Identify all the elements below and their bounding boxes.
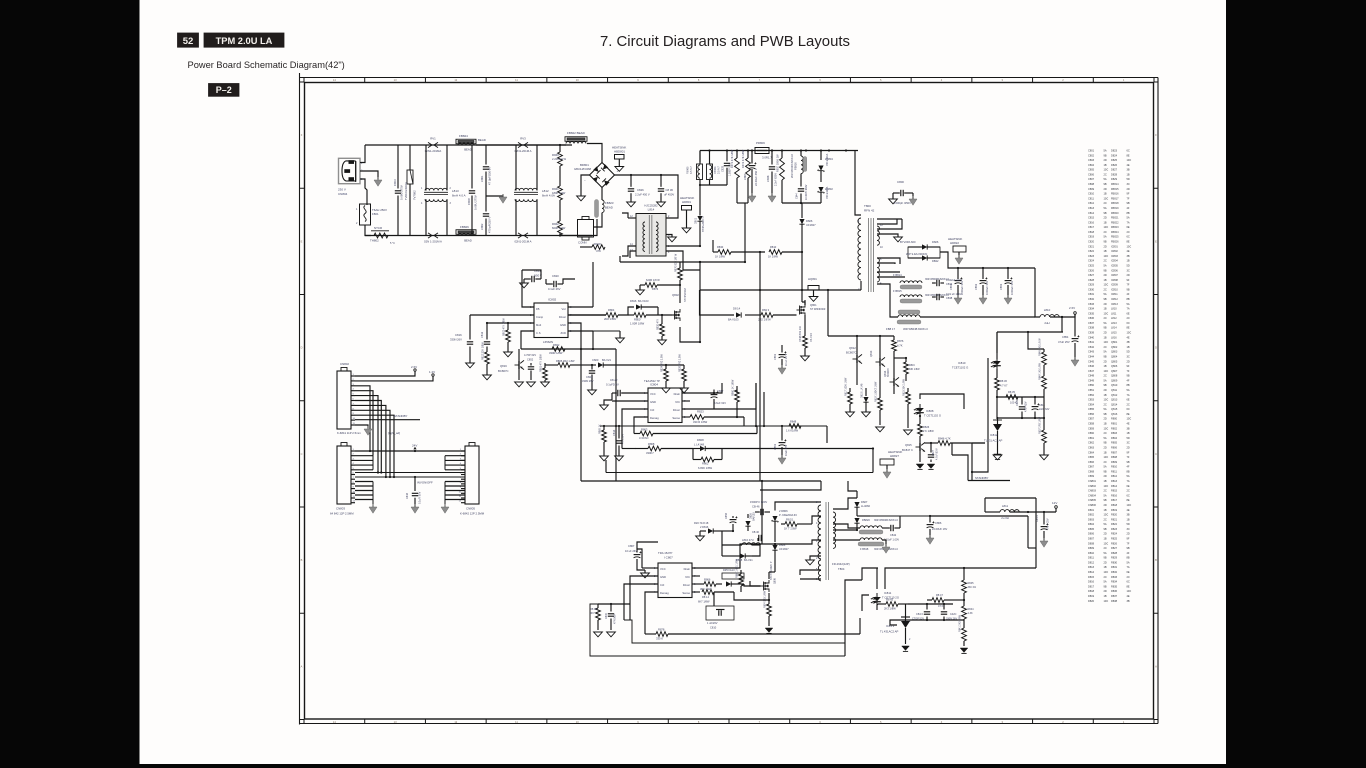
svg-text:8E: 8E xyxy=(1127,584,1130,588)
svg-text:1K 1/8W: 1K 1/8W xyxy=(768,255,778,259)
svg-text:FB821: FB821 xyxy=(1111,216,1119,220)
svg-text:R830: R830 xyxy=(1111,560,1118,564)
svg-text:C836: C836 xyxy=(1088,316,1095,320)
svg-text:6E: 6E xyxy=(1127,398,1130,402)
wire bridge plus output xyxy=(615,175,679,218)
transistor Q816 xyxy=(515,360,525,369)
svg-text:9B: 9B xyxy=(1104,556,1107,560)
svg-text:2C: 2C xyxy=(1104,575,1107,579)
svg-text:HD822: HD822 xyxy=(950,241,959,245)
svg-text:UF1827: UF1827 xyxy=(779,547,789,551)
svg-text:L816 47U: L816 47U xyxy=(742,538,754,542)
svg-text:9F: 9F xyxy=(1127,536,1130,540)
svg-text:6C: 6C xyxy=(1127,235,1130,239)
wire Vcc pin xyxy=(568,306,593,308)
svg-text:uF 450V: uF 450V xyxy=(664,193,674,197)
svg-text:6C: 6C xyxy=(1127,580,1130,584)
svg-text:C825: C825 xyxy=(1088,263,1095,267)
svg-text:R848: R848 xyxy=(790,420,797,424)
capacitor C836 bulk xyxy=(660,175,662,187)
svg-text:Demag: Demag xyxy=(660,591,669,595)
svg-text:C828: C828 xyxy=(722,165,725,172)
wire hv to transformer xyxy=(855,151,861,216)
svg-text:2D: 2D xyxy=(1104,589,1107,593)
ground sec center tap xyxy=(894,237,903,242)
resistor R802 xyxy=(507,323,509,330)
svg-text:8E: 8E xyxy=(1127,326,1130,330)
svg-text:2D: 2D xyxy=(1104,417,1107,421)
wire ic804 nc stub xyxy=(682,400,690,402)
capacitor C842 out xyxy=(882,527,890,529)
svg-text:R826: R826 xyxy=(923,425,930,429)
svg-text:D825: D825 xyxy=(1111,158,1118,162)
capacitor C844 xyxy=(798,188,804,190)
svg-text:C834: C834 xyxy=(946,282,953,286)
capacitor C834 xyxy=(932,282,936,284)
wire ic807 drain xyxy=(692,544,775,568)
svg-text:C831: C831 xyxy=(1088,292,1095,296)
svg-text:10C: 10C xyxy=(1104,541,1109,545)
svg-text:2C: 2C xyxy=(1104,489,1107,493)
svg-text:10C: 10C xyxy=(1127,503,1132,507)
svg-text:3B: 3B xyxy=(1127,254,1130,258)
svg-text:CN802: CN802 xyxy=(1088,484,1097,488)
svg-text:7F: 7F xyxy=(1127,196,1130,200)
svg-text:2 6V: 2 6V xyxy=(411,365,417,369)
pfc choke L814 xyxy=(636,214,666,257)
svg-text:ST W9NK90Z: ST W9NK90Z xyxy=(810,308,826,311)
resistor R962 bleeder xyxy=(559,200,561,221)
ic IC804 TEA1532 xyxy=(648,388,682,423)
wire cn805 pins 8-12 bar xyxy=(445,481,465,483)
svg-text:2D: 2D xyxy=(1104,474,1107,478)
svg-text:3C: 3C xyxy=(1127,527,1130,531)
svg-text:R821: R821 xyxy=(1111,517,1118,521)
svg-text:P4KE120A: P4KE120A xyxy=(826,186,829,199)
svg-text:R815 33K 1/8W: R815 33K 1/8W xyxy=(903,378,906,396)
inductor FB964 sense xyxy=(709,151,711,165)
junction bottom bus x556 xyxy=(559,234,561,236)
svg-text:R836: R836 xyxy=(1111,589,1118,593)
svg-text:4.6uF 62V: 4.6uF 62V xyxy=(714,401,726,405)
wire AC top bus xyxy=(365,144,566,146)
svg-text:4E: 4E xyxy=(1127,594,1130,598)
svg-text:0.022uF 100V: 0.022uF 100V xyxy=(946,278,963,282)
svg-text:L814: L814 xyxy=(648,208,655,212)
svg-text:D806: D806 xyxy=(1088,532,1095,536)
svg-text:47u F 25V: 47u F 25V xyxy=(1047,518,1050,530)
wire cn802 standby pin xyxy=(355,419,420,421)
svg-text:2C: 2C xyxy=(1127,489,1130,493)
svg-text:1.6 K1/8W: 1.6 K1/8W xyxy=(786,429,799,433)
svg-text:HQ801: HQ801 xyxy=(808,277,817,281)
svg-text:5A: 5A xyxy=(1104,149,1107,153)
svg-text:Q812: Q812 xyxy=(849,346,856,350)
diode D814 xyxy=(700,290,735,315)
svg-text:Q811: Q811 xyxy=(1111,388,1118,392)
svg-text:D819: D819 xyxy=(1088,594,1095,598)
svg-text:F B818: F B818 xyxy=(860,547,869,551)
svg-text:D808: D808 xyxy=(1088,541,1095,545)
svg-text:C814: C814 xyxy=(612,429,616,436)
svg-text:4F: 4F xyxy=(1127,465,1130,469)
svg-text:7F: 7F xyxy=(1127,369,1130,373)
capacitor C861 Y xyxy=(485,145,487,165)
svg-text:10C: 10C xyxy=(1104,398,1109,402)
svg-text:C847: C847 xyxy=(1088,369,1095,373)
common-mode choke L813 xyxy=(425,188,447,190)
svg-text:2D: 2D xyxy=(1104,187,1107,191)
svg-text:IC811: IC811 xyxy=(1111,292,1118,296)
svg-text:1B: 1B xyxy=(1104,536,1107,540)
svg-text:C838: C838 xyxy=(946,296,953,300)
wire T800 low sec taps xyxy=(877,258,900,264)
svg-text:C851: C851 xyxy=(1088,388,1095,392)
connector CN803 xyxy=(337,446,351,504)
svg-text:5A: 5A xyxy=(1104,206,1107,210)
svg-text:33K 1/8W: 33K 1/8W xyxy=(909,368,920,371)
svg-text:L811: L811 xyxy=(1002,504,1008,508)
svg-text:Sense: Sense xyxy=(672,416,680,420)
resistor R961 bleeder xyxy=(559,166,561,186)
svg-text:T CET1102 G: T CET1102 G xyxy=(924,414,941,418)
varistor RV2 xyxy=(428,233,438,238)
svg-text:R820 47K: R820 47K xyxy=(657,319,660,330)
svg-text:4E: 4E xyxy=(1127,335,1130,339)
svg-text:C84 0: C84 0 xyxy=(916,612,923,616)
svg-text:CONN: CONN xyxy=(578,241,587,245)
svg-text:R807: R807 xyxy=(1111,450,1118,454)
svg-text:B: B xyxy=(301,558,303,562)
svg-text:9B: 9B xyxy=(1127,546,1130,550)
svg-text:C864: C864 xyxy=(1088,450,1095,454)
resistor R836 opto xyxy=(996,369,998,378)
svg-text:2u 3H: 2u 3H xyxy=(1001,516,1008,520)
svg-text:10C: 10C xyxy=(1104,484,1109,488)
svg-text:R837 2R0 1/8W: R837 2R0 1/8W xyxy=(1039,416,1042,434)
svg-text:D820: D820 xyxy=(1088,599,1095,603)
diode D826 damper xyxy=(801,203,803,218)
wire q801 drain up xyxy=(802,302,805,305)
diode pair D805 gate xyxy=(716,583,722,585)
svg-text:FB816: FB816 xyxy=(794,162,798,170)
svg-text:NTCR: NTCR xyxy=(374,226,382,230)
svg-text:Q816: Q816 xyxy=(500,364,507,368)
wire HV bus drop left xyxy=(699,151,701,163)
wire q806 gate xyxy=(750,581,761,586)
svg-text:IC811: IC811 xyxy=(884,591,892,595)
svg-text:2C: 2C xyxy=(1104,374,1107,378)
svg-text:R849 1K5 1/8W: R849 1K5 1/8W xyxy=(1039,362,1042,380)
svg-text:STANDBY: STANDBY xyxy=(394,414,408,418)
svg-text:3B: 3B xyxy=(1127,513,1130,517)
resistor R865b xyxy=(558,363,570,368)
svg-text:IC808: IC808 xyxy=(926,409,934,413)
svg-text:4F: 4F xyxy=(1127,292,1130,296)
svg-text:L814: L814 xyxy=(1111,326,1117,330)
svg-text:R84 3: R84 3 xyxy=(762,308,770,312)
svg-text:C814: C814 xyxy=(1088,211,1095,215)
svg-text:6C: 6C xyxy=(1127,321,1130,325)
svg-text:9B: 9B xyxy=(1104,469,1107,473)
svg-text:C826: C826 xyxy=(637,188,644,192)
svg-text:C866: C866 xyxy=(1088,460,1095,464)
wire ic804 ctrl pin xyxy=(622,409,648,426)
capacitor C846b HV xyxy=(757,538,759,541)
svg-text:9B: 9B xyxy=(1104,268,1107,272)
svg-text:2D: 2D xyxy=(1127,445,1130,449)
svg-text:FB820: FB820 xyxy=(862,518,870,522)
svg-text:C850: C850 xyxy=(1088,383,1095,387)
svg-text:9B: 9B xyxy=(1104,527,1107,531)
svg-text:1B: 1B xyxy=(1127,172,1130,176)
electrolytic C866 xyxy=(929,516,931,523)
resistor R819 cluster xyxy=(879,394,881,398)
ferrite bead FB824 xyxy=(456,139,476,144)
connector CN802 xyxy=(337,371,351,429)
svg-text:2C: 2C xyxy=(1104,201,1107,205)
svg-text:2D: 2D xyxy=(1104,388,1107,392)
svg-text:2K3 1/8W: 2K3 1/8W xyxy=(884,607,896,611)
svg-text:Ctrl: Ctrl xyxy=(660,583,665,587)
sheet label P-2 xyxy=(209,84,240,97)
svg-text:R845: R845 xyxy=(968,582,975,585)
wire ic807 demag xyxy=(645,592,658,634)
svg-text:5A: 5A xyxy=(1104,436,1107,440)
svg-text:2D: 2D xyxy=(1104,302,1107,306)
svg-text:R817: R817 xyxy=(1111,498,1118,502)
inductor L816 xyxy=(742,543,760,545)
capacitor C846c fb xyxy=(1034,397,1036,405)
svg-text:IC812: IC812 xyxy=(1111,297,1118,301)
svg-text:D816: D816 xyxy=(1088,580,1095,584)
svg-text:D816: D816 xyxy=(630,299,637,303)
svg-text:4E: 4E xyxy=(1127,422,1130,426)
svg-text:36R W5R4B 820X1.0: 36R W5R4B 820X1.0 xyxy=(903,327,928,331)
svg-text:0.01 uF 100V: 0.01 uF 100V xyxy=(946,292,962,296)
wire cs sense xyxy=(672,314,680,316)
capacitor C810 sense xyxy=(713,592,715,606)
svg-text:FB: FB xyxy=(536,307,540,311)
svg-text:C830: C830 xyxy=(1088,287,1095,291)
ferrite bead FB826 xyxy=(456,230,476,235)
resistor R841 divider xyxy=(963,620,965,628)
svg-text:FR-2642(12P): FR-2642(12P) xyxy=(832,562,850,566)
svg-text:0K7: 0K7 xyxy=(590,611,595,615)
svg-text:5A: 5A xyxy=(1127,560,1130,564)
resistor R820 gate pulldown xyxy=(661,314,663,316)
svg-text:0.1uF/ 50V: 0.1uF/ 50V xyxy=(419,491,422,504)
svg-text:T800: T800 xyxy=(864,204,871,208)
svg-text:1B: 1B xyxy=(1104,278,1107,282)
svg-text:2uH: 2uH xyxy=(1044,321,1049,325)
svg-text:CN805: CN805 xyxy=(466,507,475,511)
svg-text:Q807: Q807 xyxy=(1111,369,1118,373)
svg-text:R870 820 1/8 W: R870 820 1/8 W xyxy=(675,253,678,272)
svg-text:5A: 5A xyxy=(1127,216,1130,220)
svg-text:VCC: VCC xyxy=(650,392,656,396)
svg-text:ZCD: ZCD xyxy=(560,331,566,335)
svg-text:R829: R829 xyxy=(1111,556,1118,560)
svg-text:E: E xyxy=(1155,239,1157,243)
resistor R837 xyxy=(781,151,783,159)
capacitor C862 Y xyxy=(485,196,487,212)
svg-text:L813: L813 xyxy=(1111,321,1117,325)
electrolytic C854 xyxy=(1074,315,1076,337)
svg-text:0.68U 275V: 0.68U 275V xyxy=(474,195,478,210)
varistor RV802 xyxy=(409,145,411,170)
diode D824 clamp xyxy=(772,545,777,550)
svg-text:1B: 1B xyxy=(1104,163,1107,167)
wire fuse to NTC xyxy=(365,225,371,236)
svg-text:3K0 1/3W: 3K0 1/3W xyxy=(700,587,712,591)
ferrite bead FB822 xyxy=(565,137,587,142)
svg-text:8E: 8E xyxy=(1127,240,1130,244)
svg-text:2.2uF 450 V: 2.2uF 450 V xyxy=(635,193,650,197)
resistor R832 xyxy=(552,347,565,352)
transistor Q815 xyxy=(916,442,926,451)
svg-text:PR806: PR806 xyxy=(756,141,765,145)
svg-text:4.7 K7: 4.7 K7 xyxy=(1000,384,1008,388)
fuse PR806 xyxy=(755,148,769,154)
wire inlet pin3 down xyxy=(360,179,367,205)
svg-text:C867: C867 xyxy=(628,544,635,548)
resistor R830 xyxy=(713,251,718,253)
svg-text:9B: 9B xyxy=(1104,584,1107,588)
svg-text:A: A xyxy=(1155,664,1157,668)
zener ZD806 xyxy=(772,516,779,522)
svg-text:C817: C817 xyxy=(1088,225,1095,229)
common-mode choke L812 xyxy=(515,188,537,190)
svg-text:4E: 4E xyxy=(1127,508,1130,512)
wire standby out xyxy=(930,515,1028,517)
svg-text:2R2 1/8W: 2R2 1/8W xyxy=(604,317,616,321)
svg-text:IC805: IC805 xyxy=(1111,263,1118,267)
capacitor C849 fb xyxy=(1021,397,1023,405)
svg-text:9B: 9B xyxy=(1127,460,1130,464)
svg-text:C810: C810 xyxy=(710,626,717,630)
svg-text:IC807: IC807 xyxy=(1111,273,1118,277)
svg-text:GBU4J/F3468: GBU4J/F3468 xyxy=(574,167,592,171)
resistor R847 reg xyxy=(932,598,944,603)
wire t801 pin1 xyxy=(775,540,821,544)
resistor R800 gate xyxy=(634,313,646,318)
svg-text:R824 6R2 1.8W: R824 6R2 1.8W xyxy=(661,354,664,372)
varistor RV1 xyxy=(428,142,438,147)
svg-text:R860 1K 1/8W: R860 1K 1/8W xyxy=(732,379,735,396)
wire ic807 ctrl xyxy=(624,584,658,620)
svg-text:R8 35: R8 35 xyxy=(1008,390,1015,394)
svg-text:R824: R824 xyxy=(1111,532,1118,536)
svg-text:3C: 3C xyxy=(1127,182,1130,186)
ic IC802 PFC controller L6562 xyxy=(534,303,568,338)
svg-text:FB815: FB815 xyxy=(1111,187,1119,191)
svg-text:FB820: FB820 xyxy=(1111,211,1119,215)
svg-text:C863: C863 xyxy=(1088,445,1095,449)
svg-text:C815: C815 xyxy=(1088,216,1095,220)
wire opto frame xyxy=(845,580,862,611)
svg-text:L L4148: L L4148 xyxy=(694,443,704,447)
resistor R846b xyxy=(938,441,950,446)
svg-text:TPM 2.0U LA: TPM 2.0U LA xyxy=(216,36,273,46)
resistor R873 xyxy=(645,283,657,288)
svg-text:C820: C820 xyxy=(1088,240,1095,244)
resistor R865 vert xyxy=(603,426,605,430)
svg-text:BAV103: BAV103 xyxy=(753,512,756,521)
resistor R812 xyxy=(485,352,490,364)
svg-text:R873: R873 xyxy=(652,287,659,291)
svg-text:F B814: F B814 xyxy=(893,273,902,277)
diode D818 rect xyxy=(700,530,706,532)
svg-text:C822: C822 xyxy=(1088,249,1095,253)
resistor R824 zcd xyxy=(665,365,667,369)
svg-text:3C: 3C xyxy=(1127,268,1130,272)
svg-text:R812 33K 1/8W: R812 33K 1/8W xyxy=(482,342,485,360)
svg-text:R820: R820 xyxy=(1111,513,1118,517)
svg-text:R832: R832 xyxy=(553,343,560,347)
svg-text:5D: 5D xyxy=(1127,350,1130,354)
svg-text:1B: 1B xyxy=(1104,192,1107,196)
svg-text:1B: 1B xyxy=(1127,517,1130,521)
svg-text:BC807C: BC807C xyxy=(846,351,857,355)
electrolytic C852 xyxy=(982,268,984,279)
svg-text:C839: C839 xyxy=(1088,331,1095,335)
svg-text:BA V103: BA V103 xyxy=(638,299,649,303)
wire ic807 gnd xyxy=(630,576,658,604)
diode D819 parallel xyxy=(740,553,745,558)
capacitor C826 bulk xyxy=(630,175,632,187)
svg-text:CB 46: CB 46 xyxy=(752,531,760,534)
resistor R817 cluster xyxy=(849,388,851,392)
svg-text:C842: C842 xyxy=(890,533,897,537)
svg-text:P4KE120A: P4KE120A xyxy=(826,153,829,166)
svg-text:7A: 7A xyxy=(1127,220,1130,224)
svg-text:5D: 5D xyxy=(1127,177,1130,181)
svg-text:L812: L812 xyxy=(542,189,549,193)
svg-text:R8 36: R8 36 xyxy=(1000,379,1007,383)
svg-text:R816: R816 xyxy=(909,364,915,367)
svg-text:C861: C861 xyxy=(1088,436,1095,440)
wire standby corner xyxy=(971,443,973,481)
transistor Q812 xyxy=(853,354,863,363)
svg-text:C853: C853 xyxy=(1088,398,1095,402)
inductor FB816 xyxy=(800,151,802,157)
svg-text:R863: R863 xyxy=(641,428,648,432)
svg-text:9F: 9F xyxy=(1127,192,1130,196)
svg-text:C862: C862 xyxy=(1088,441,1095,445)
svg-text:6E: 6E xyxy=(1127,484,1130,488)
svg-text:TRA 1527P: TRA 1527P xyxy=(658,551,672,555)
svg-text:620R 1/8 W: 620R 1/8 W xyxy=(646,278,660,282)
svg-text:2C: 2C xyxy=(1104,345,1107,349)
svg-text:2D: 2D xyxy=(1127,273,1130,277)
svg-text:R972 47K 1/8W: R972 47K 1/8W xyxy=(741,149,745,168)
wire cn802 pin1 2.6V xyxy=(355,372,415,377)
svg-text:R835: R835 xyxy=(1111,584,1118,588)
svg-text:820K 1/4W: 820K 1/4W xyxy=(552,226,566,230)
svg-text:2 D806: 2 D806 xyxy=(779,509,788,513)
pfc diode D801 xyxy=(699,205,701,216)
svg-text:1K 7 1.8W: 1K 7 1.8W xyxy=(784,527,797,531)
svg-text:330 K: 330 K xyxy=(656,637,663,641)
wire cn805 pins 2-5 bar xyxy=(445,455,465,457)
svg-text:L812: L812 xyxy=(1111,316,1117,320)
svg-text:2 K 1/8W: 2 K 1/8W xyxy=(923,429,934,433)
svg-text:IC802: IC802 xyxy=(548,298,557,302)
svg-text:5A: 5A xyxy=(1104,235,1107,239)
svg-text:5A: 5A xyxy=(1104,407,1107,411)
svg-text:C846: C846 xyxy=(1088,364,1095,368)
